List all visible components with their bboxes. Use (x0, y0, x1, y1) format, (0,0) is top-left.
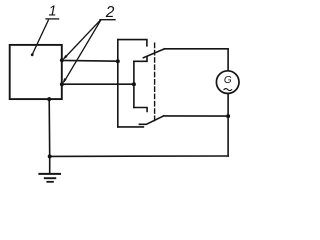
svg-text:1: 1 (49, 4, 57, 20)
connector bottom bracket (118, 126, 144, 128)
box 1 (device under test) (10, 45, 62, 99)
wire: generator bottom down to bottom rail (227, 94, 229, 157)
connector left bar (117, 40, 119, 127)
label 2 (105, 4, 115, 21)
wire: upper terminal to connector (62, 59, 118, 62)
junction dot at generator bottom net (226, 114, 230, 118)
label 1 underline (46, 18, 59, 20)
junction dot lower terminal 2 (60, 82, 64, 86)
leader end dot of label 1 (31, 53, 34, 56)
wire: lower terminal to connector middle bar (62, 83, 134, 85)
generator G circle (216, 71, 239, 94)
connector coupling dashed line (154, 43, 156, 121)
label 1 (49, 4, 57, 20)
connector top bracket (118, 40, 147, 46)
leader arrow of label 2 to lower terminal (64, 20, 100, 81)
svg-text:2: 2 (105, 4, 115, 21)
connector lower socket contact (134, 108, 147, 112)
label 2 underline (100, 19, 115, 21)
generator AC tilde (224, 89, 232, 91)
leader line of label 1 (32, 20, 48, 54)
generator letter G (224, 75, 232, 86)
svg-text:G: G (224, 75, 232, 86)
junction dot at ground node (48, 154, 52, 158)
wire: lower blade to right junction (164, 115, 229, 117)
leader arrow of label 2 to upper terminal (65, 20, 101, 58)
junction dot on connector left bar (116, 59, 120, 63)
connector upper pin blade (143, 49, 164, 58)
ground symbol (49, 156, 51, 173)
connector upper socket contact (134, 57, 147, 61)
wire: top to generator (165, 49, 229, 71)
junction dot at box bottom (47, 97, 51, 101)
wire: bottom rail (50, 155, 228, 157)
junction dot upper terminal 2 (60, 58, 64, 62)
wire: box bottom down to ground node (48, 99, 51, 156)
connector lower pin blade (139, 116, 163, 124)
connector middle bar (133, 61, 135, 107)
junction dot on connector middle bar (132, 82, 136, 86)
